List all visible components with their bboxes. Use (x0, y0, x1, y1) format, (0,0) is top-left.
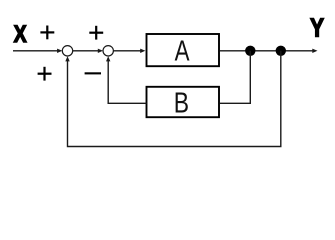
sign + (into summer S2 from S1) (89, 26, 103, 40)
wire block B output to summer S2 (106, 56, 147, 103)
sign − (B feedback into summer S2) (85, 72, 101, 74)
block A (147, 34, 220, 66)
wire node N1 down to block B input (220, 51, 250, 104)
junction node N1 (tap to B) (245, 46, 255, 56)
wire input X into summer S1 (13, 49, 62, 53)
svg-text:B: B (174, 86, 189, 119)
svg-text:A: A (175, 36, 191, 67)
svg-text:Y: Y (310, 13, 324, 42)
wire summer S1 to summer S2 (73, 49, 103, 53)
junction node N2 (tap to outer loop) (276, 46, 286, 56)
sign + (outer feedback into summer S1) (38, 67, 52, 81)
summing junction S1 (62, 46, 72, 56)
wire outer feedback node N2 to summer S1 (65, 51, 280, 147)
wire summer S2 to block A (113, 49, 145, 53)
svg-text:X: X (14, 20, 27, 48)
block B (147, 87, 220, 117)
wire block A output to Y (220, 49, 318, 53)
summing junction S2 (103, 46, 113, 56)
sign + (input X into summer S1) (40, 26, 54, 40)
